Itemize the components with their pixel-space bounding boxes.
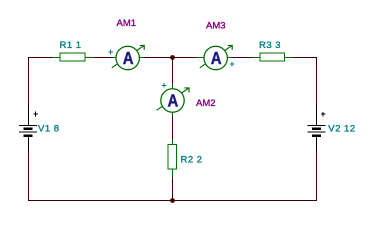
svg-text:R1 1: R1 1 (60, 40, 82, 51)
ammeter AM1 arrow shaft (112, 45, 144, 67)
wire AM3 right stub (227, 57, 232, 59)
wire R2 top lead (172, 140, 174, 145)
wire R1 right lead (85, 57, 94, 59)
wire AM2 bottom stub (172, 112, 174, 117)
wire AM3 left stub (196, 57, 205, 59)
battery V1 plate short upper (24, 128, 33, 131)
wire right vertical lower (V2 to bottom corner) (316, 152, 318, 201)
ammeter AM3 body (204, 46, 227, 69)
battery V2 plus polarity mark (321, 112, 326, 117)
ammeter AM1 arrowhead (140, 45, 145, 50)
wire V2 bottom terminal (316, 137, 318, 153)
resistor R3 body (260, 53, 285, 61)
resistor R1 body (60, 53, 85, 61)
battery V2 plate short upper (312, 128, 321, 131)
svg-text:A: A (123, 48, 134, 68)
wire R2 to node B (172, 178, 174, 201)
wire R2 bottom lead (172, 169, 174, 178)
battery V1 plate long middle (19, 131, 37, 133)
wire V1 bottom terminal (28, 137, 30, 153)
svg-text:A: A (168, 90, 179, 110)
wire AM3 to R3 (232, 57, 252, 59)
node A junction dot (170, 55, 175, 60)
wire left vertical upper (corner to V1) (28, 57, 30, 106)
svg-text:V2 12: V2 12 (328, 123, 355, 134)
wire V1 top terminal (28, 106, 30, 126)
ammeter AM3 arrowhead (228, 45, 233, 50)
wire top-left horizontal (node 1 to R1) (28, 57, 52, 59)
battery V1 plus polarity mark (33, 112, 38, 117)
svg-text:V1 8: V1 8 (38, 124, 60, 135)
wire bottom horizontal right (node B to corner) (173, 200, 318, 202)
wire node A to AM3 (173, 57, 196, 59)
wire AM1 left stub (113, 57, 118, 59)
ammeter AM1 body (116, 46, 139, 69)
wire V2 top terminal (316, 106, 318, 126)
svg-text:AM3: AM3 (206, 21, 226, 32)
ammeter AM2 body (161, 89, 184, 112)
wire right vertical upper (corner to V2) (316, 57, 318, 106)
battery V2 plate short lower (312, 135, 321, 138)
wire AM2 to R2 (172, 117, 174, 140)
wire R1 to AM1 (94, 57, 113, 59)
wire R3 left lead (252, 57, 261, 59)
node B junction dot (170, 198, 175, 203)
wire bottom horizontal left (corner to node B) (28, 200, 173, 202)
ammeter AM2 plus polarity mark (162, 83, 167, 88)
ammeter AM2 arrow shaft (157, 88, 189, 110)
wire R1 left lead (52, 57, 60, 59)
wire R3 right lead (285, 57, 294, 59)
svg-text:R3 3: R3 3 (259, 40, 281, 51)
wire R3 to top-right corner (293, 57, 317, 59)
wire AM1 right stub (139, 57, 144, 59)
svg-text:A: A (211, 48, 222, 68)
resistor R2 body (168, 145, 177, 170)
ammeter AM3 plus polarity mark (230, 62, 235, 67)
ammeter AM2 arrowhead (185, 88, 190, 93)
svg-text:R2 2: R2 2 (181, 155, 203, 166)
wire middle vertical (node A to AM2) (172, 58, 174, 85)
battery V2 plate long middle (308, 131, 326, 133)
svg-text:AM2: AM2 (196, 98, 216, 109)
ammeter AM3 arrow shaft (200, 45, 232, 67)
wire AM2 top stub (172, 85, 174, 90)
battery V1 plate short lower (24, 135, 33, 138)
ammeter AM1 plus polarity mark (108, 50, 113, 55)
svg-text:AM1: AM1 (117, 18, 137, 29)
wire left vertical lower (V1 to bottom corner) (28, 152, 30, 201)
wire AM1 to node A (144, 57, 173, 59)
battery V2 plate long top (308, 125, 326, 127)
battery V1 plate long top (19, 125, 37, 127)
